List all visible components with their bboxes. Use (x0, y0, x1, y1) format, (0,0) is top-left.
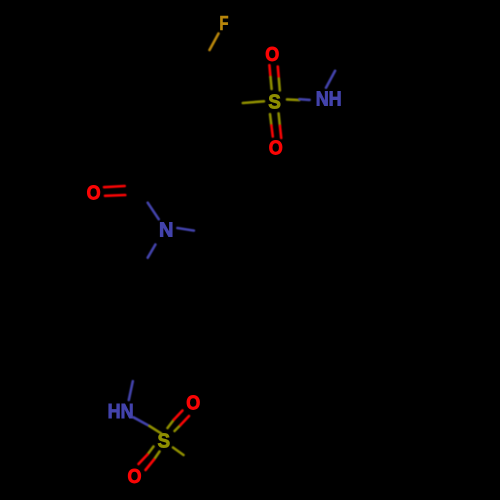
bond N3-S2 (N half) (134, 417, 150, 426)
bond C=O2 lower line (O half) (105, 194, 125, 197)
bond S1=O1a right line (O half) (278, 67, 279, 79)
bond N2-CH2 right (N half) (177, 228, 194, 231)
svg-text:S: S (268, 91, 281, 113)
svg-text:O: O (87, 183, 101, 205)
svg-text:NH: NH (316, 88, 342, 110)
bond S2=O4 right line (S half) (154, 452, 160, 460)
svg-text:F: F (219, 13, 228, 35)
svg-text:O: O (186, 393, 200, 415)
bond N1-CH3 (N half) (326, 71, 335, 88)
bond S1=O1a right line (S half) (279, 79, 280, 91)
bond S1=O1a left line (S half) (271, 77, 272, 89)
bond S2=O3 left line (O half) (174, 411, 183, 420)
bond S2=O4 left line (S half) (148, 447, 154, 455)
bond N2-CH2 down-left (N half) (148, 245, 156, 258)
svg-text:O: O (128, 466, 142, 488)
bond S2=O3 right line (S half) (175, 425, 181, 431)
bond S2-CH3 (S half) (173, 448, 184, 456)
bond S2=O3 left line (S half) (168, 420, 175, 429)
bond S1-N1 (S half) (287, 98, 299, 101)
bond S1=O1a left line (O half) (269, 65, 270, 77)
svg-text:S: S (158, 431, 171, 453)
bond S1=O1b right line (O half) (280, 126, 281, 138)
bond S1=O1b left line (S half) (270, 114, 271, 125)
bond CH2-N3 chain (N half) (129, 381, 133, 400)
svg-text:HN: HN (108, 401, 134, 423)
bond S1=O1b left line (O half) (271, 125, 272, 136)
bond S1-N1 (N half) (299, 98, 309, 101)
bond S1-C(ring) (S half) (243, 101, 264, 103)
svg-text:O: O (265, 44, 279, 66)
svg-text:O: O (269, 137, 283, 159)
svg-text:N: N (159, 220, 173, 242)
bond S2=O4 left line (O half) (139, 455, 148, 465)
bond N3-S2 (S half) (149, 426, 161, 433)
bond S2=O4 right line (O half) (146, 460, 155, 471)
bond C=O2 upper line (O half) (104, 186, 125, 187)
bond C-F (F half) (210, 34, 219, 51)
bond S1=O1b right line (S half) (279, 113, 280, 125)
bond S2=O3 right line (O half) (181, 416, 190, 425)
bond C(=O)-N2 (N half) (148, 203, 159, 220)
